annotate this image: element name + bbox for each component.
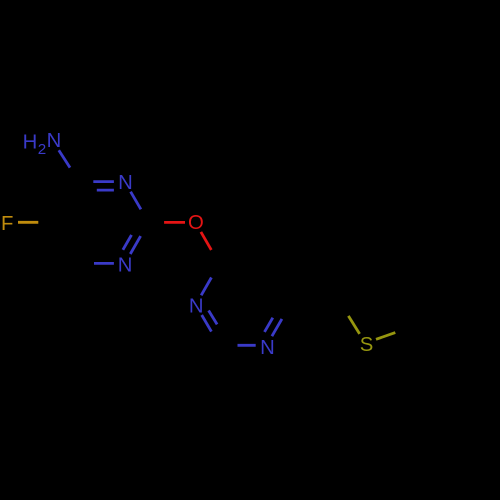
svg-text:S: S <box>360 334 374 356</box>
svg-text:N: N <box>118 172 133 194</box>
svg-text:H: H <box>23 132 38 154</box>
svg-text:N: N <box>260 337 275 359</box>
svg-text:O: O <box>188 212 204 234</box>
svg-text:N: N <box>189 295 204 317</box>
svg-text:N: N <box>47 130 62 152</box>
svg-text:2: 2 <box>38 141 46 158</box>
svg-text:F: F <box>1 213 13 235</box>
svg-text:N: N <box>118 254 133 276</box>
